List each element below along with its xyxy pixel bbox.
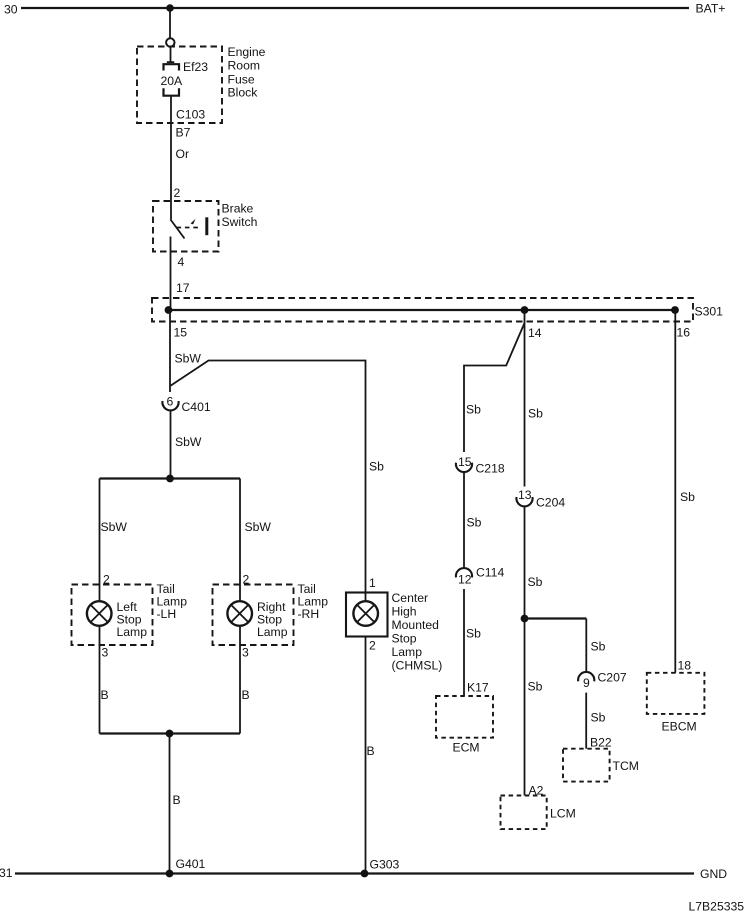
svg-text:S301: S301 — [695, 305, 724, 319]
junction S301 right — [671, 306, 679, 314]
EBCM dashed box — [647, 673, 705, 714]
wire S301 middle straight drop — [524, 310, 526, 487]
svg-text:3: 3 — [242, 646, 249, 660]
wire into fuse — [167, 47, 174, 63]
svg-text:Lamp: Lamp — [392, 645, 423, 659]
svg-text:G401: G401 — [176, 857, 206, 871]
lamp symbol CHMSL — [353, 601, 378, 626]
svg-text:Sb: Sb — [591, 640, 606, 654]
wire from supply bus to fuse block — [169, 8, 171, 38]
wire left lamp to ground join — [99, 626, 101, 734]
wire junction to LCM — [524, 619, 526, 796]
Brake Switch dashed box — [153, 201, 219, 252]
junction TCM branch — [521, 615, 529, 623]
svg-text:SbW: SbW — [245, 520, 272, 534]
svg-text:15: 15 — [174, 326, 188, 340]
wire S301 to C401 — [169, 310, 171, 392]
svg-text:High: High — [392, 605, 417, 619]
svg-text:Sb: Sb — [528, 407, 543, 421]
svg-text:12: 12 — [458, 573, 472, 587]
svg-text:(CHMSL): (CHMSL) — [392, 659, 443, 673]
svg-text:Lamp: Lamp — [257, 625, 288, 639]
svg-text:C103: C103 — [176, 108, 205, 122]
svg-text:B: B — [242, 688, 250, 702]
ECM dashed box — [436, 696, 493, 738]
wire S301 internal bus — [167, 309, 676, 311]
svg-text:Sb: Sb — [680, 490, 695, 504]
svg-text:K17: K17 — [467, 681, 489, 695]
wire C114 to ECM — [463, 589, 465, 696]
LCM dashed box — [501, 796, 547, 830]
svg-text:B22: B22 — [590, 736, 612, 750]
svg-text:18: 18 — [678, 659, 692, 673]
svg-text:L7B25335: L7B25335 — [689, 900, 745, 913]
wire C401 to lamp junction — [170, 411, 172, 479]
wire TCM branch down — [585, 619, 587, 673]
svg-text:B7: B7 — [176, 126, 191, 140]
svg-text:C114: C114 — [476, 566, 504, 580]
wire top supply bus 30/BAT+ — [21, 7, 689, 9]
svg-text:ECM: ECM — [453, 741, 480, 755]
svg-text:Sb: Sb — [467, 516, 482, 530]
svg-text:Ef23: Ef23 — [183, 60, 208, 74]
wire join to G401 — [169, 734, 171, 874]
Left Stop Lamp dashed box — [72, 585, 153, 646]
junction G401 — [166, 870, 174, 878]
fuse Ef23 top clip — [164, 64, 180, 70]
wire junction to TCM branch — [525, 617, 587, 619]
connector C114 — [456, 568, 472, 577]
svg-text:31: 31 — [0, 866, 13, 880]
svg-text:13: 13 — [518, 488, 532, 502]
svg-text:BAT+: BAT+ — [696, 2, 726, 16]
svg-text:GND: GND — [700, 867, 727, 881]
wire right lamp to ground join — [239, 626, 241, 734]
svg-text:9: 9 — [583, 676, 590, 690]
svg-text:30: 30 — [4, 3, 18, 17]
brake switch fixed contact bar — [205, 217, 208, 235]
svg-text:B: B — [173, 793, 181, 807]
connector C207 — [578, 672, 594, 681]
junction ground join — [166, 730, 174, 738]
svg-text:C207: C207 — [598, 671, 627, 685]
Right Stop Lamp dashed box — [213, 585, 294, 646]
svg-text:Sb: Sb — [466, 403, 481, 417]
svg-text:4: 4 — [178, 255, 185, 269]
junction S301 middle — [521, 306, 529, 314]
svg-text:Sb: Sb — [466, 627, 481, 641]
svg-text:-LH: -LH — [157, 607, 177, 621]
svg-text:14: 14 — [528, 326, 542, 340]
svg-text:B: B — [101, 688, 109, 702]
junction G303 — [361, 870, 369, 878]
svg-text:Sb: Sb — [369, 460, 384, 474]
svg-text:Fuse: Fuse — [228, 73, 255, 87]
svg-text:Engine: Engine — [228, 45, 266, 59]
wire CHMSL to G303 — [365, 637, 367, 874]
lamp symbol right stop lamp — [227, 601, 252, 626]
brake switch actuator dashed link — [177, 227, 202, 229]
svg-text:Lamp: Lamp — [117, 625, 148, 639]
wire to left stop lamp — [99, 479, 101, 602]
svg-text:2: 2 — [369, 639, 376, 653]
svg-text:G303: G303 — [370, 858, 400, 872]
TCM dashed box — [563, 749, 610, 782]
connector ring at fuse block entry — [166, 38, 174, 46]
svg-text:C401: C401 — [182, 400, 211, 414]
fuse Ef23 bottom clip — [164, 88, 180, 95]
Engine Room Fuse Block dashed box — [137, 47, 222, 124]
lamp symbol left stop lamp — [87, 601, 112, 626]
junction S301 left — [165, 306, 173, 314]
wire brake switch to S301 — [170, 237, 172, 311]
svg-text:SbW: SbW — [101, 520, 128, 534]
svg-text:Sb: Sb — [528, 680, 543, 694]
svg-text:17: 17 — [176, 281, 190, 295]
svg-text:Sb: Sb — [528, 575, 543, 589]
wire bottom ground bus 31/GND — [15, 872, 694, 874]
svg-text:15: 15 — [458, 455, 472, 469]
svg-text:Center: Center — [392, 591, 429, 605]
svg-text:Mounted: Mounted — [392, 618, 439, 632]
splice pack S301 dashed box — [152, 298, 693, 322]
svg-text:16: 16 — [677, 326, 691, 340]
connector C401 — [162, 401, 178, 410]
svg-text:EBCM: EBCM — [662, 720, 697, 734]
wire C218 to C114 — [463, 473, 465, 569]
CHMSL solid box — [346, 593, 388, 637]
svg-text:Switch: Switch — [222, 215, 258, 229]
svg-text:C218: C218 — [476, 462, 505, 476]
svg-text:Room: Room — [228, 59, 261, 73]
svg-text:Brake: Brake — [222, 202, 254, 216]
wire S301 middle drop with jog to ECM branch — [464, 323, 525, 452]
brake switch actuator arrow — [191, 219, 196, 225]
svg-text:1: 1 — [369, 576, 376, 590]
svg-text:SbW: SbW — [175, 352, 202, 366]
wire split header — [100, 477, 241, 479]
svg-text:-RH: -RH — [298, 607, 320, 621]
wire fuse to brake switch — [170, 96, 172, 220]
svg-text:Stop: Stop — [392, 632, 417, 646]
wire C204 to junction — [524, 507, 526, 619]
wire C207 to TCM — [585, 693, 587, 749]
svg-text:LCM: LCM — [550, 807, 576, 821]
junction on supply bus — [166, 4, 174, 12]
svg-text:6: 6 — [167, 395, 174, 409]
wire branch to CHMSL (diagonal + horizontal) — [171, 361, 366, 602]
svg-text:20A: 20A — [161, 74, 184, 88]
svg-text:3: 3 — [102, 646, 109, 660]
svg-text:Or: Or — [176, 147, 190, 161]
svg-text:Block: Block — [228, 86, 259, 100]
wire ground join header — [100, 732, 241, 734]
junction stop lamp split — [166, 475, 174, 483]
svg-text:SbW: SbW — [175, 435, 202, 449]
wire S301 right to EBCM — [674, 310, 676, 673]
svg-text:Sb: Sb — [591, 711, 606, 725]
svg-text:TCM: TCM — [613, 759, 639, 773]
svg-text:C204: C204 — [536, 496, 565, 510]
brake switch blade — [171, 220, 185, 239]
wire to right stop lamp — [239, 479, 241, 602]
svg-text:B: B — [367, 744, 375, 758]
connector C204 — [516, 497, 532, 506]
svg-text:2: 2 — [174, 186, 181, 200]
connector C218 — [456, 463, 472, 472]
